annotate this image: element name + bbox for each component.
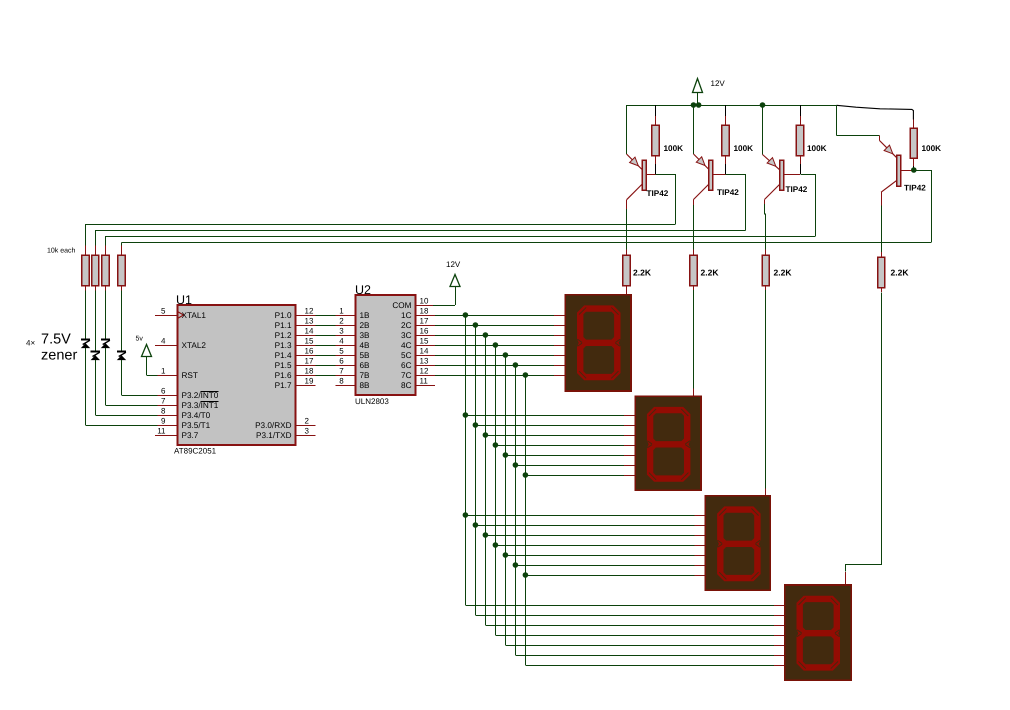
junction col6 row1 — [513, 362, 519, 368]
wire Q4 base to bus4 — [914, 171, 932, 243]
junction col6 row2 — [513, 462, 519, 468]
svg-text:P1.4: P1.4 — [275, 351, 292, 360]
junction col1 row3 — [463, 512, 469, 518]
svg-text:5B: 5B — [360, 351, 371, 360]
svg-text:6B: 6B — [360, 361, 371, 370]
transistor Q4 TIP42 emitter wire — [837, 105, 880, 136]
wire Q3 collector — [765, 199, 766, 255]
wire Q1 base to bus1 — [656, 175, 676, 225]
svg-text:P1.7: P1.7 — [275, 381, 292, 390]
wire bus4 drop to 10k resistor — [121, 243, 123, 256]
transistor Q4 TIP42 — [880, 135, 927, 192]
svg-text:16: 16 — [420, 327, 429, 336]
resistor R5 2.2K — [623, 255, 652, 295]
wire segment column 5 — [505, 355, 507, 645]
transistor Q2 TIP42 — [694, 154, 740, 200]
zener diode D2 7.5V — [91, 352, 100, 361]
wire segment column 2 — [475, 325, 477, 615]
svg-text:TIP42: TIP42 — [717, 188, 739, 197]
junction col1 row2 — [463, 412, 469, 418]
resistor R6 2.2K — [690, 255, 719, 290]
transistor Q3 TIP42 — [763, 155, 808, 200]
pin 16 P1.4 wire to U2 — [275, 347, 356, 361]
U2 pin 13 6C — [401, 357, 435, 371]
svg-text:U2: U2 — [355, 283, 371, 297]
resistor R8 2.2K — [878, 257, 910, 292]
svg-text:COM: COM — [392, 301, 411, 310]
svg-text:P3.7: P3.7 — [182, 431, 199, 440]
svg-text:15: 15 — [305, 337, 314, 346]
wire 10k R10 to zener D2 — [95, 286, 97, 352]
wire bus3 drop to 10k resistor — [105, 236, 107, 255]
wire segment row1 4C to display1 — [435, 345, 565, 347]
wire 10k R12 to zener D4 — [121, 286, 123, 352]
U2 pin 6 6B — [339, 357, 370, 371]
wire segment row1 2C to display1 — [435, 325, 565, 327]
svg-text:2: 2 — [339, 317, 344, 326]
svg-text:P3.3/INT1: P3.3/INT1 — [182, 401, 219, 410]
svg-text:P1.5: P1.5 — [275, 361, 292, 370]
wire 12V rail to R4 (black) — [837, 105, 914, 119]
junction col5 row1 — [503, 352, 509, 358]
U2 pin 16 3C — [401, 327, 435, 341]
zener diode D4 7.5V — [117, 352, 126, 361]
pin 7 P3.3/INT1 — [161, 397, 219, 411]
wire R7 to display3 common — [765, 290, 767, 496]
svg-text:11: 11 — [420, 377, 429, 386]
svg-text:P1.6: P1.6 — [275, 371, 292, 380]
pin 12 P1.0 wire to U2 — [275, 307, 356, 321]
wire segment row1 7C to display1 — [435, 375, 565, 377]
zener diode D1 7.5V — [81, 340, 90, 349]
svg-text:100K: 100K — [807, 144, 827, 153]
svg-text:17: 17 — [420, 317, 429, 326]
wire segment column 4 — [495, 345, 497, 635]
resistor R10 10k — [92, 255, 99, 286]
svg-text:7B: 7B — [360, 371, 371, 380]
junction col3 row3 — [483, 532, 489, 538]
transistor Q1 TIP42 — [627, 154, 669, 200]
svg-text:14: 14 — [305, 327, 314, 336]
svg-text:1B: 1B — [360, 311, 371, 320]
pin 19 P1.7 wire to U2 — [275, 377, 356, 391]
junction col7 row1 — [523, 372, 529, 378]
svg-text:AT89C2051: AT89C2051 — [174, 447, 217, 456]
wire segment row3 to display3 — [465, 515, 705, 517]
svg-text:10k each: 10k each — [47, 247, 76, 255]
svg-text:P3.4/T0: P3.4/T0 — [182, 411, 211, 420]
power symbol 12V (top) — [693, 79, 726, 106]
U2 pin 2 2B — [339, 317, 370, 331]
svg-text:4: 4 — [161, 337, 166, 346]
svg-text:16: 16 — [305, 347, 314, 356]
transistor Q1 TIP42 emitter wire — [626, 105, 628, 154]
U2 pin 18 1C — [401, 307, 435, 321]
U2 pin 7 7B — [339, 367, 370, 381]
svg-text:7.5V: 7.5V — [41, 332, 71, 348]
junction col5 row3 — [503, 552, 509, 558]
svg-text:9: 9 — [161, 417, 166, 426]
svg-text:TIP42: TIP42 — [786, 185, 808, 194]
resistor R1 100K — [652, 105, 683, 174]
svg-text:11: 11 — [157, 427, 166, 436]
wire segment row2 to display2 — [515, 465, 635, 467]
pin 17 P1.5 wire to U2 — [275, 357, 356, 371]
power rail 12V wire — [627, 105, 837, 107]
junction col2 row3 — [473, 522, 479, 528]
svg-text:P1.3: P1.3 — [275, 341, 292, 350]
wire segment row3 to display3 — [495, 545, 705, 547]
wire segment row2 to display2 — [485, 435, 635, 437]
svg-text:13: 13 — [305, 317, 314, 326]
svg-text:5v: 5v — [136, 336, 144, 343]
svg-text:4×: 4× — [26, 339, 35, 348]
svg-text:6: 6 — [339, 357, 344, 366]
wire R8 to display4 common — [846, 293, 882, 586]
7-segment display DS3 — [705, 496, 770, 591]
svg-text:100K: 100K — [922, 144, 942, 153]
U2 pin 5 5B — [339, 347, 370, 361]
svg-text:18: 18 — [420, 307, 429, 316]
IC U2 ULN2803 — [355, 283, 415, 406]
svg-text:19: 19 — [305, 377, 314, 386]
svg-text:4: 4 — [339, 337, 344, 346]
U2 pin 17 2C — [401, 317, 435, 331]
svg-text:5: 5 — [339, 347, 344, 356]
wire 5V to RST — [147, 375, 178, 377]
svg-text:1: 1 — [339, 307, 344, 316]
wire segment row4 to display4 — [475, 615, 784, 617]
U2 pin 15 4C — [401, 337, 435, 351]
wire Q4 collector — [881, 192, 883, 257]
junction col3 row1 — [483, 332, 489, 338]
wire segment column 6 — [515, 365, 517, 655]
svg-text:18: 18 — [305, 367, 314, 376]
wire bus3 — [106, 236, 816, 238]
svg-text:12V: 12V — [711, 79, 726, 88]
svg-text:12V: 12V — [446, 260, 461, 269]
svg-text:17: 17 — [305, 357, 314, 366]
wire segment column 3 — [485, 335, 487, 625]
pin 6 P3.2/INT0 — [161, 387, 219, 401]
wire bus4 — [122, 242, 932, 244]
resistor R3 100K — [796, 105, 826, 174]
pin 14 P1.2 wire to U2 — [275, 327, 356, 341]
junction col2 row1 — [473, 322, 479, 328]
svg-text:3: 3 — [339, 327, 344, 336]
junction col6 row3 — [513, 562, 519, 568]
wire zener D4 to MCU pin — [122, 360, 178, 395]
power symbol 12V (U2) — [446, 260, 461, 287]
7-segment display DS4 — [785, 585, 851, 680]
zener diode D3 7.5V — [101, 340, 110, 349]
svg-text:P1.2: P1.2 — [275, 331, 292, 340]
junction Q4 base node — [911, 167, 917, 173]
svg-text:P3.2/INT0: P3.2/INT0 — [182, 391, 219, 400]
junction col4 row3 — [493, 542, 499, 548]
wire bus1 (Q1 base to P3.x resistor) — [86, 224, 676, 226]
wire Q3 base to bus3 — [801, 175, 816, 237]
svg-text:TIP42: TIP42 — [647, 189, 669, 198]
svg-text:2.2K: 2.2K — [633, 268, 652, 278]
wire segment row2 to display2 — [525, 475, 635, 477]
junction col4 row2 — [493, 442, 499, 448]
wire segment row3 to display3 — [485, 535, 705, 537]
svg-text:6: 6 — [161, 387, 166, 396]
svg-text:RST: RST — [182, 371, 198, 380]
svg-text:P3.5/T1: P3.5/T1 — [182, 421, 211, 430]
svg-text:5: 5 — [161, 307, 166, 316]
pin 15 P1.3 wire to U2 — [275, 337, 356, 351]
wire segment row2 to display2 — [465, 415, 635, 417]
svg-text:XTAL1: XTAL1 — [182, 311, 207, 320]
svg-text:1C: 1C — [401, 311, 412, 320]
svg-text:14: 14 — [420, 347, 429, 356]
pin 1 RST — [161, 367, 198, 381]
wire bus2 drop to 10k resistor — [95, 230, 97, 255]
U2 pin 1 1B — [339, 307, 370, 321]
wire segment row4 to display4 — [465, 605, 784, 607]
7-segment display DS1 — [565, 295, 631, 391]
wire segment row4 to display4 — [515, 655, 784, 657]
svg-text:7C: 7C — [401, 371, 412, 380]
svg-text:5C: 5C — [401, 351, 412, 360]
U2 pin 4 4B — [339, 337, 370, 351]
U2 pin 14 5C — [401, 347, 435, 361]
svg-text:1: 1 — [161, 367, 166, 376]
junction col1 row1 — [463, 312, 469, 318]
U2 pin 8 8B — [339, 377, 370, 391]
wire zener D2 to MCU pin — [95, 360, 177, 415]
svg-text:7: 7 — [161, 397, 166, 406]
svg-text:8: 8 — [339, 377, 344, 386]
pin 11 P3.7 — [155, 427, 199, 441]
svg-text:15: 15 — [420, 337, 429, 346]
junction col2 row2 — [473, 422, 479, 428]
resistor R4 100K — [910, 120, 941, 171]
wire Q2 base to bus2 — [726, 175, 746, 231]
wire segment row3 to display3 — [505, 555, 705, 557]
junction col7 row2 — [523, 472, 529, 478]
wire bus1 drop to 10k resistor — [85, 224, 87, 255]
U2 pin 12 7C — [401, 367, 435, 381]
wire segment row2 to display2 — [475, 425, 635, 427]
svg-text:P3.0/RXD: P3.0/RXD — [255, 421, 291, 430]
label 4x 7.5V zener — [26, 332, 77, 364]
junction 12V stem on rail — [696, 102, 702, 108]
wire segment row3 to display3 — [525, 575, 705, 577]
wire segment row2 to display2 — [495, 445, 635, 447]
junction col4 row1 — [493, 342, 499, 348]
svg-text:U1: U1 — [176, 293, 192, 307]
wire segment column 7 — [525, 375, 527, 665]
U2 pin 3 3B — [339, 327, 370, 341]
wire segment row1 6C to display1 — [435, 365, 565, 367]
resistor R7 2.2K — [762, 255, 792, 290]
svg-text:7: 7 — [339, 367, 344, 376]
svg-text:2.2K: 2.2K — [891, 268, 910, 278]
pin 2 P3.0/RXD — [255, 417, 315, 431]
svg-text:12: 12 — [420, 367, 429, 376]
wire segment row1 3C to display1 — [435, 335, 565, 337]
wire 10k R11 to zener D3 — [105, 286, 107, 340]
svg-text:3B: 3B — [360, 331, 371, 340]
svg-text:TIP42: TIP42 — [904, 184, 926, 193]
wire segment column 1 — [465, 315, 467, 605]
wire zener D1 to MCU pin — [86, 348, 178, 425]
junction col5 row2 — [503, 452, 509, 458]
svg-text:8C: 8C — [401, 381, 412, 390]
pin 13 P1.1 wire to U2 — [275, 317, 356, 331]
svg-text:2.2K: 2.2K — [701, 268, 720, 278]
svg-text:8: 8 — [161, 407, 166, 416]
U2 pin 10 COM to 12V — [415, 287, 455, 306]
svg-text:4B: 4B — [360, 341, 371, 350]
pin 3 P3.1/TXD — [256, 427, 316, 441]
svg-text:100K: 100K — [664, 144, 684, 153]
wire segment row4 to display4 — [525, 665, 784, 667]
svg-text:P3.1/TXD: P3.1/TXD — [256, 431, 292, 440]
power symbol 5V — [136, 336, 152, 376]
transistor Q2 TIP42 emitter wire — [693, 105, 695, 154]
svg-text:P1.0: P1.0 — [275, 311, 292, 320]
wire zener D3 to MCU pin — [106, 348, 178, 405]
pin 9 P3.5/T1 — [161, 417, 211, 431]
7-segment display DS2 — [635, 396, 701, 490]
junction T3 emitter on rail — [760, 102, 766, 108]
svg-text:4C: 4C — [401, 341, 412, 350]
resistor R2 100K — [722, 105, 753, 174]
svg-text:3: 3 — [305, 427, 310, 436]
wire segment row1 1C to display1 — [435, 315, 565, 317]
svg-text:12: 12 — [305, 307, 314, 316]
pin 8 P3.4/T0 — [161, 407, 211, 421]
wire segment row4 to display4 — [505, 645, 784, 647]
svg-text:P1.1: P1.1 — [275, 321, 292, 330]
pin 5 XTAL1 — [155, 307, 206, 321]
svg-text:13: 13 — [420, 357, 429, 366]
junction col3 row2 — [483, 432, 489, 438]
IC U1 AT89C2051 — [174, 293, 296, 456]
resistor R11 10k — [102, 255, 109, 286]
junction col7 row3 — [523, 572, 529, 578]
svg-text:2.2K: 2.2K — [774, 268, 793, 278]
U2 pin 11 8C — [401, 377, 435, 391]
wire Q1 collector — [626, 200, 628, 255]
junction T2 emitter on rail — [691, 102, 697, 108]
resistor R9 10k — [82, 255, 89, 286]
wire segment row2 to display2 — [505, 455, 635, 457]
wire segment row3 to display3 — [475, 525, 705, 527]
svg-text:2C: 2C — [401, 321, 412, 330]
wire segment row1 5C to display1 — [435, 355, 565, 357]
wire segment row4 to display4 — [485, 625, 784, 627]
wire segment row4 to display4 — [495, 635, 784, 637]
svg-text:10: 10 — [420, 297, 429, 306]
pin 4 XTAL2 — [155, 337, 206, 351]
svg-text:zener: zener — [41, 348, 77, 364]
svg-text:6C: 6C — [401, 361, 412, 370]
svg-text:ULN2803: ULN2803 — [355, 397, 389, 406]
svg-text:100K: 100K — [734, 144, 754, 153]
wire segment row3 to display3 — [515, 565, 705, 567]
svg-text:8B: 8B — [360, 381, 371, 390]
svg-text:3C: 3C — [401, 331, 412, 340]
transistor Q3 TIP42 emitter wire — [762, 105, 764, 155]
wire R6 to display2 common — [693, 290, 695, 397]
svg-text:XTAL2: XTAL2 — [182, 341, 207, 350]
svg-text:2: 2 — [305, 417, 310, 426]
resistor R12 10k — [118, 255, 125, 286]
wire 10k R9 to zener D1 — [85, 286, 87, 340]
wire bus2 — [95, 230, 745, 232]
svg-text:2B: 2B — [360, 321, 371, 330]
wire Q2 collector — [693, 200, 695, 256]
pin 18 P1.6 wire to U2 — [275, 367, 356, 381]
